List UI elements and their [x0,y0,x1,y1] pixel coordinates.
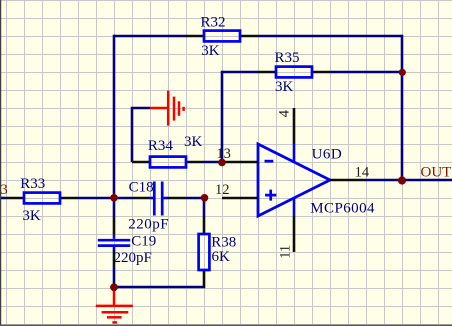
wire R32 to right rail [259,35,402,38]
junction right rail at R35 [399,69,406,76]
wire output to right edge [366,179,452,182]
svg-text:3K: 3K [275,79,294,95]
svg-text:4: 4 [276,109,292,117]
junction right rail at OUT [398,176,406,184]
pin 4 V+ [293,108,296,144]
wire R33 to node A [78,197,114,200]
svg-text:3K: 3K [201,43,220,59]
wire node A to C18 [114,197,132,200]
svg-text:OUT3: OUT3 [421,164,452,180]
wire ground corner down to R34 [132,108,150,162]
op-amp U6D triangle [258,144,330,216]
op-amp minus input mark [265,160,274,163]
capacitor C18 pins [132,197,186,200]
capacitor C19 pins [113,218,116,267]
wire C18 to node 12 [186,197,204,200]
capacitor C18 plates [150,182,167,216]
resistor R33 body [24,193,60,204]
wire node A left vertical [113,35,116,198]
junction ground node at C19/R38 [110,283,118,291]
net label 3 clipped at left edge [0,186,1,188]
svg-text:C19: C19 [131,234,156,250]
wire R35 row left segment [222,71,258,74]
wire C19 to ground node [113,266,116,287]
pin 13 inverting input [222,161,258,164]
resistor R32 body [204,31,240,42]
pin 12 non-inverting input [222,197,258,200]
resistor R34 body [150,157,186,168]
svg-text:R33: R33 [20,176,45,192]
svg-text:6K: 6K [212,249,231,265]
svg-text:R32: R32 [201,14,226,30]
ground GND rotated right [150,91,184,126]
wire R35 to right rail [330,71,402,74]
capacitor C19 plates [98,235,130,251]
pin 14 output [330,179,366,182]
resistor R38 body [199,234,210,270]
left window border [0,0,1,326]
resistor R35 body [276,67,312,78]
resistor R38 pins [203,217,206,289]
svg-text:3K: 3K [22,208,41,224]
resistor R34 pins [132,161,204,164]
svg-text:MCP6004: MCP6004 [310,201,375,217]
wire node A down to C19 [113,198,116,218]
wire R38 bottom to ground node [114,286,203,289]
wire node 12 down to R38 [203,198,206,217]
svg-text:3K: 3K [184,134,203,150]
ground GND bottom [96,288,133,322]
svg-text:220pF: 220pF [128,217,169,233]
resistor R32 pins [185,35,259,38]
svg-text:R35: R35 [275,50,300,66]
svg-text:12: 12 [215,182,230,198]
pin 11 V- stub into triangle [293,198,296,216]
svg-text:U6D: U6D [312,147,343,163]
resistor R33 pins [5,197,78,200]
wire top feedback run from node A to R32 [114,35,185,38]
svg-text:11: 11 [277,245,293,259]
svg-text:14: 14 [355,165,370,181]
wire right rail vertical [401,35,404,181]
junction node 13 at R34/R35 [218,159,226,167]
pin 4 V+ stub into triangle [293,144,296,162]
resistor R35 pins [258,71,330,74]
bottom window border [0,325,452,326]
junction node A at R33/C18/C19 [110,194,118,202]
svg-text:3: 3 [0,182,8,198]
pin 11 V- [293,216,296,252]
op-amp plus input mark [265,190,276,201]
svg-text:220pF: 220pF [114,250,152,266]
wire R34 to inverting node [204,161,222,164]
junction node 12 at C18/R38 [201,194,209,202]
svg-text:R34: R34 [148,138,174,154]
wire input stub at left edge [0,197,5,200]
svg-text:C18: C18 [129,179,154,195]
wire vertical from R35 row down to inverting node [221,71,224,162]
